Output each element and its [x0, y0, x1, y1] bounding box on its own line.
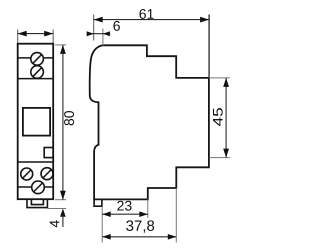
partition line y187	[18, 186, 54, 188]
screw bottom center	[32, 181, 45, 194]
4 dimension	[48, 209, 67, 228]
screw bottom left	[21, 168, 33, 180]
partition line y162	[18, 161, 54, 163]
front foot box side view	[94, 199, 102, 206]
body outline front view	[18, 44, 54, 200]
61 dimension	[94, 9, 209, 78]
partition line y77.6	[18, 78, 54, 80]
partition line y58	[18, 57, 54, 59]
80 dimension	[55, 45, 74, 200]
screw top 2	[31, 66, 44, 79]
45 dimension	[209, 78, 230, 158]
screw bottom right	[41, 168, 53, 180]
top width dimension front view	[18, 30, 54, 44]
6 dimension	[87, 21, 120, 46]
23 dimension	[102, 199, 148, 217]
small square right	[44, 148, 53, 158]
foot outer front view	[27, 199, 47, 207]
window rect	[23, 108, 50, 136]
side profile outline	[90, 45, 209, 199]
screw top 1	[31, 53, 44, 66]
foot inner front view	[31, 199, 43, 204]
37,8 dimension	[102, 188, 176, 243]
